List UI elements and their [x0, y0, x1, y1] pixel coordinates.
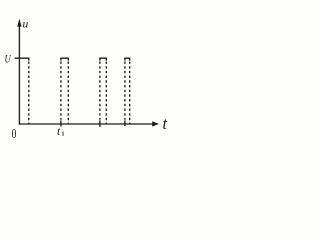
pulse 2 right edge dashed — [67, 62, 69, 125]
pulse 2 left tick crossing axis (t1) — [60, 120, 62, 126]
pulse 3 left edge dashed — [99, 62, 101, 120]
pulse 4 left edge dashed — [124, 62, 126, 120]
pulse 4 left tick crossing axis — [124, 120, 126, 126]
y-axis — [18, 22, 20, 125]
svg-text:0: 0 — [12, 125, 17, 141]
x-axis arrowhead — [152, 121, 159, 126]
pulse 1 right edge dashed — [28, 62, 30, 125]
pulse 4 top — [125, 58, 130, 60]
x-axis — [19, 123, 154, 125]
U level tick and pulse 1 top — [15, 58, 29, 60]
y-axis arrowhead — [17, 19, 21, 27]
svg-text:1: 1 — [61, 130, 64, 137]
pulse 2 top — [61, 58, 68, 60]
pulse 3 right edge dashed — [105, 62, 107, 125]
pulse 2 left edge dashed — [60, 62, 62, 120]
svg-text:t: t — [163, 114, 168, 133]
pulse 4 right edge dashed — [129, 62, 131, 125]
pulse 3 top — [100, 58, 106, 60]
svg-text:u: u — [23, 19, 29, 31]
pulse 3 left tick crossing axis — [99, 120, 101, 127]
